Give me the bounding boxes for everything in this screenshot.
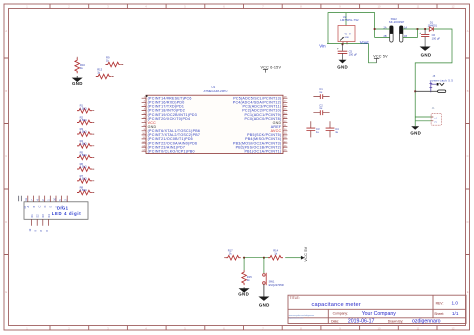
svg-text:1.5kΩ: 1.5kΩ	[80, 106, 87, 110]
svg-text:1u: 1u	[319, 106, 322, 110]
svg-text:1.5kΩ: 1.5kΩ	[80, 118, 87, 122]
junction SW1 tap	[263, 257, 265, 259]
svg-text:D: D	[467, 220, 469, 224]
svg-text:capacitance-meter: capacitance-meter	[289, 316, 304, 319]
regulator U2 LM7805L-T92	[338, 15, 359, 45]
svg-text:VCC 6-15V: VCC 6-15V	[261, 65, 282, 69]
svg-text:GND: GND	[72, 81, 83, 86]
svg-text:1.5kΩ: 1.5kΩ	[80, 153, 87, 157]
svg-text:SK-2000SP: SK-2000SP	[389, 20, 405, 24]
wire Vin loop to switch	[328, 13, 375, 44]
wire R14 to VCC	[285, 257, 301, 259]
resistor R2 1.5k	[77, 115, 94, 124]
svg-text:Your Company: Your Company	[362, 311, 397, 317]
wire Vout to VCC flag	[369, 44, 377, 63]
svg-text:ozdigennaro: ozdigennaro	[412, 319, 441, 325]
svg-text:LED 4 digit: LED 4 digit	[52, 211, 82, 216]
junction at jack sleeve	[414, 90, 416, 92]
svg-text:Vout: Vout	[360, 40, 370, 45]
resistor R4 1.5k	[77, 139, 94, 148]
svg-text:C: C	[39, 206, 42, 208]
svg-text:1N4001: 1N4001	[428, 23, 438, 27]
svg-text:C: C	[467, 154, 469, 158]
svg-text:1.5kΩ: 1.5kΩ	[80, 130, 87, 134]
svg-text:REV:: REV:	[436, 301, 444, 305]
svg-text:1.5kΩ: 1.5kΩ	[80, 165, 87, 169]
svg-text:1.5kΩ: 1.5kΩ	[80, 188, 87, 192]
svg-text:GND: GND	[410, 130, 421, 135]
svg-text:100 µF: 100 µF	[432, 36, 441, 40]
resistor R9 1k	[105, 56, 123, 67]
resistor R5 1.5k	[77, 150, 94, 159]
title block	[288, 295, 466, 325]
capacitor C2 1u	[313, 103, 329, 115]
wire R17 to R14	[243, 257, 270, 259]
connector J1	[431, 106, 441, 125]
svg-text:PB1(OC1A/PCINT1): PB1(OC1A/PCINT1)	[244, 149, 281, 153]
svg-text:B: B	[467, 89, 469, 93]
junction switch input	[374, 28, 376, 30]
svg-text:1u: 1u	[316, 130, 319, 134]
svg-text:1.0: 1.0	[452, 301, 459, 306]
svg-text:(PCINT0/CLKO/ICP1)PB0: (PCINT0/CLKO/ICP1)PB0	[148, 149, 195, 153]
svg-text:Date:: Date:	[331, 320, 339, 324]
capacitor C6 100uF	[419, 29, 440, 47]
resistor R1 1.5k	[77, 104, 94, 113]
resistor R3 1.5k	[77, 127, 94, 136]
svg-text:GND: GND	[337, 65, 348, 70]
IC U1 ATMEGA48-20PU	[142, 85, 288, 154]
svg-text:B: B	[5, 89, 7, 93]
svg-text:Sheet:: Sheet:	[434, 312, 444, 316]
svg-text:+: +	[337, 47, 339, 51]
svg-text:+: +	[419, 31, 421, 35]
capacitor C3 1u	[306, 121, 320, 137]
junction R15 tap	[243, 257, 245, 259]
svg-text:E: E	[467, 290, 469, 294]
svg-text:TITLE:: TITLE:	[290, 296, 300, 300]
resistor R15 1k	[242, 270, 252, 288]
junction at C5	[342, 43, 344, 45]
display DIG1 LED 4 digit	[19, 196, 88, 232]
capacitor C5 100uF	[337, 44, 357, 60]
svg-text:LM7805L-T92: LM7805L-T92	[340, 18, 359, 22]
svg-text:C6: C6	[432, 33, 436, 37]
resistor R8 1.5k	[77, 186, 94, 195]
resistor R16 1k	[75, 57, 86, 78]
svg-text:G: G	[61, 206, 64, 208]
svg-text:D: D	[5, 220, 7, 224]
ground under R15	[238, 288, 249, 296]
svg-text:D: D	[44, 206, 47, 208]
resistor R6 1.5k	[77, 162, 94, 171]
svg-text:GND: GND	[421, 52, 432, 57]
wire J1 pins	[415, 117, 431, 121]
wire U2 top pin	[345, 13, 347, 26]
svg-text:GND: GND	[238, 292, 249, 297]
ground under J1	[410, 121, 421, 136]
capacitor C1 1u	[313, 87, 329, 99]
svg-text:C: C	[5, 154, 7, 158]
capacitor C4 1u	[326, 121, 340, 137]
svg-text:DI: DI	[24, 206, 27, 209]
svg-text:Vin: Vin	[319, 44, 326, 49]
svg-text:GND: GND	[259, 303, 270, 308]
svg-text:Drawn By:: Drawn By:	[388, 319, 404, 323]
resistor R17 1k	[224, 249, 241, 260]
svg-text:Company:: Company:	[333, 312, 349, 316]
resistor R13 1k	[96, 68, 114, 79]
connector J8 power-jack 5.5	[415, 74, 453, 93]
junction switch output	[417, 28, 419, 30]
svg-text:GND: GND	[345, 37, 350, 39]
svg-text:1.5kΩ: 1.5kΩ	[80, 141, 87, 145]
wire diode to power jack and J1	[415, 29, 452, 121]
svg-text:1u: 1u	[335, 130, 338, 134]
wire junction to R15	[243, 258, 245, 271]
svg-text:1/1: 1/1	[452, 311, 459, 316]
resistor R7 1.5k	[77, 174, 94, 183]
svg-text:A: A	[5, 29, 7, 33]
diode D1 1N4001	[428, 20, 438, 31]
ground under C6	[420, 47, 432, 58]
power flag VCC 5V	[373, 54, 388, 62]
wire Vin horizontal	[327, 43, 369, 45]
ground under R16	[72, 78, 83, 86]
svg-text:100 µF: 100 µF	[349, 53, 358, 57]
wire switch output stubs	[403, 29, 418, 38]
junction at C6	[424, 28, 426, 30]
switch SW2 SK-2000SP	[384, 17, 408, 42]
svg-text:E: E	[5, 290, 7, 294]
resistor R14 1k	[268, 249, 283, 260]
svg-text:1.5kΩ: 1.5kΩ	[80, 176, 87, 180]
wire switch to diode	[418, 28, 430, 30]
ground under C5	[337, 60, 348, 70]
svg-text:VCC 5V: VCC 5V	[304, 246, 308, 261]
svg-text:EVQ22705R: EVQ22705R	[269, 283, 284, 287]
svg-text:SW1: SW1	[269, 279, 275, 283]
svg-text:VCC 5V: VCC 5V	[373, 54, 388, 58]
svg-text:power-jack 5.5: power-jack 5.5	[430, 78, 453, 82]
svg-text:2019-06-17: 2019-06-17	[348, 319, 375, 325]
svg-text:capacitance meter: capacitance meter	[312, 302, 361, 308]
wire SW1 to ground	[263, 284, 265, 296]
ground under SW1	[258, 297, 269, 308]
pushbutton SW1 EVQ22705R	[263, 273, 284, 287]
wire junction to SW1	[263, 258, 265, 274]
svg-text:A: A	[467, 29, 469, 33]
wire switch input stubs	[375, 29, 390, 38]
svg-text:1u: 1u	[319, 90, 322, 94]
svg-text:ATMEGA48-20PU: ATMEGA48-20PU	[204, 89, 228, 93]
power arrow VCC 5V rotated	[301, 246, 308, 261]
power flag VCC 6-15V	[261, 65, 282, 72]
